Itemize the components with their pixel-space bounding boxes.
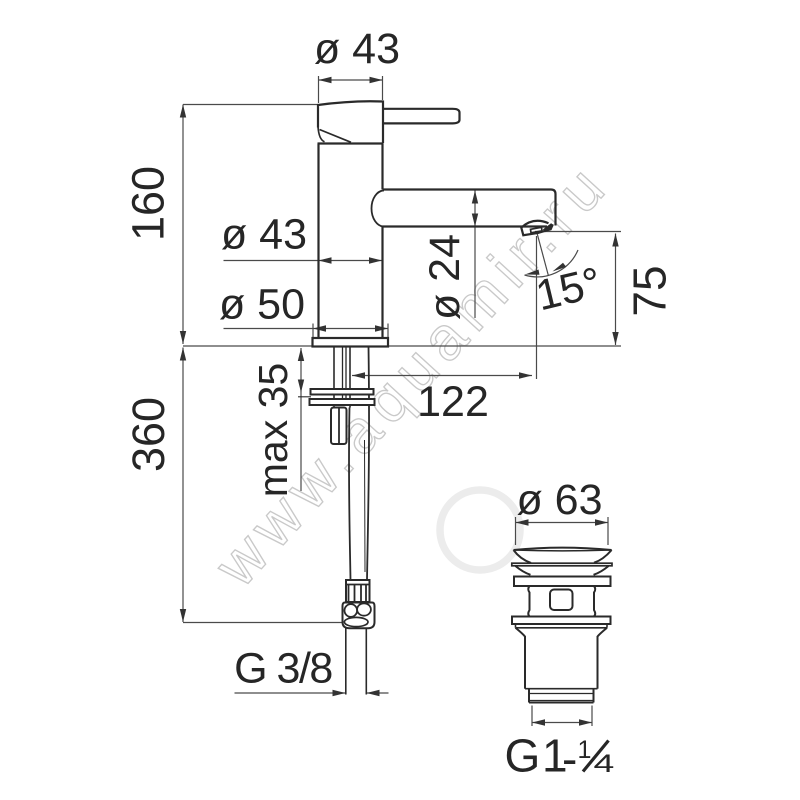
svg-text:G: G: [505, 730, 541, 782]
svg-text:122: 122: [417, 378, 489, 426]
svg-text:160: 160: [123, 166, 174, 241]
svg-text:ø 24: ø 24: [421, 234, 469, 320]
svg-text:-: -: [562, 733, 577, 785]
svg-text:max 35: max 35: [250, 363, 296, 497]
svg-text:ø 43: ø 43: [314, 25, 400, 73]
svg-text:ø 63: ø 63: [516, 476, 602, 524]
svg-text:ø 50: ø 50: [219, 281, 305, 329]
svg-text:1: 1: [578, 736, 592, 764]
svg-text:75: 75: [624, 265, 676, 316]
svg-text:360: 360: [123, 397, 174, 472]
svg-text:ø 43: ø 43: [221, 211, 307, 259]
svg-text:G 3/8: G 3/8: [234, 645, 332, 693]
